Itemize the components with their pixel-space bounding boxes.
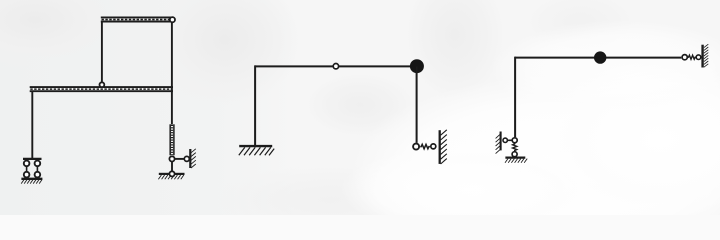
fixed support plate (239, 145, 272, 147)
right column (416, 66, 418, 143)
beam (255, 65, 413, 67)
left column (514, 57, 516, 138)
pin ground hatching (158, 175, 183, 179)
wall roller circle (184, 156, 189, 161)
left column (31, 91, 33, 158)
ground hatching (21, 180, 42, 184)
top chord member (hatched rigid bar) (101, 17, 173, 21)
roller circles row 2 (24, 172, 30, 178)
right column (full height) (171, 21, 173, 124)
link to wall roller (508, 139, 512, 141)
hinge on beam (333, 63, 338, 68)
wall (189, 149, 191, 168)
link to wall roller (175, 158, 185, 160)
roller links (26, 166, 28, 172)
rigid joint (solid) (594, 51, 606, 63)
roller circles row 1 (24, 161, 30, 167)
rigid joint (solid) (410, 59, 424, 73)
beam (515, 57, 681, 59)
hinge above lower chord (100, 82, 105, 87)
wall hatching (191, 149, 196, 168)
left column (254, 65, 256, 145)
fixed support hatching (239, 147, 274, 155)
hinge at bottom of ladder (169, 156, 174, 161)
wall roller circle (431, 144, 436, 149)
left wall hatching (496, 135, 500, 154)
ground plate (21, 178, 42, 180)
vertical laddered link (170, 124, 174, 155)
left support: member hinge (512, 138, 517, 143)
right wall hatching (704, 44, 708, 67)
ground hatching (505, 159, 527, 163)
link down to ground pin (171, 162, 173, 172)
roller circle (413, 144, 419, 150)
bottom roller (512, 152, 517, 157)
right end roller (682, 55, 687, 60)
spring (420, 144, 430, 148)
vertical spring (513, 143, 517, 152)
right wall (701, 45, 703, 68)
right wall roller (696, 55, 701, 60)
ground line through pin (159, 173, 169, 175)
double roller support: top plate (23, 158, 42, 160)
left column of upper box (101, 22, 103, 82)
wall roller (503, 138, 507, 142)
right spring (688, 55, 696, 59)
lower chord member (hatched rigid bar) (30, 87, 173, 91)
wall (439, 130, 441, 164)
wall hatching (441, 130, 447, 164)
hinge at top-right (170, 17, 175, 22)
left wall (500, 132, 502, 151)
ground plate (505, 156, 525, 158)
ground pin circle (169, 171, 174, 176)
